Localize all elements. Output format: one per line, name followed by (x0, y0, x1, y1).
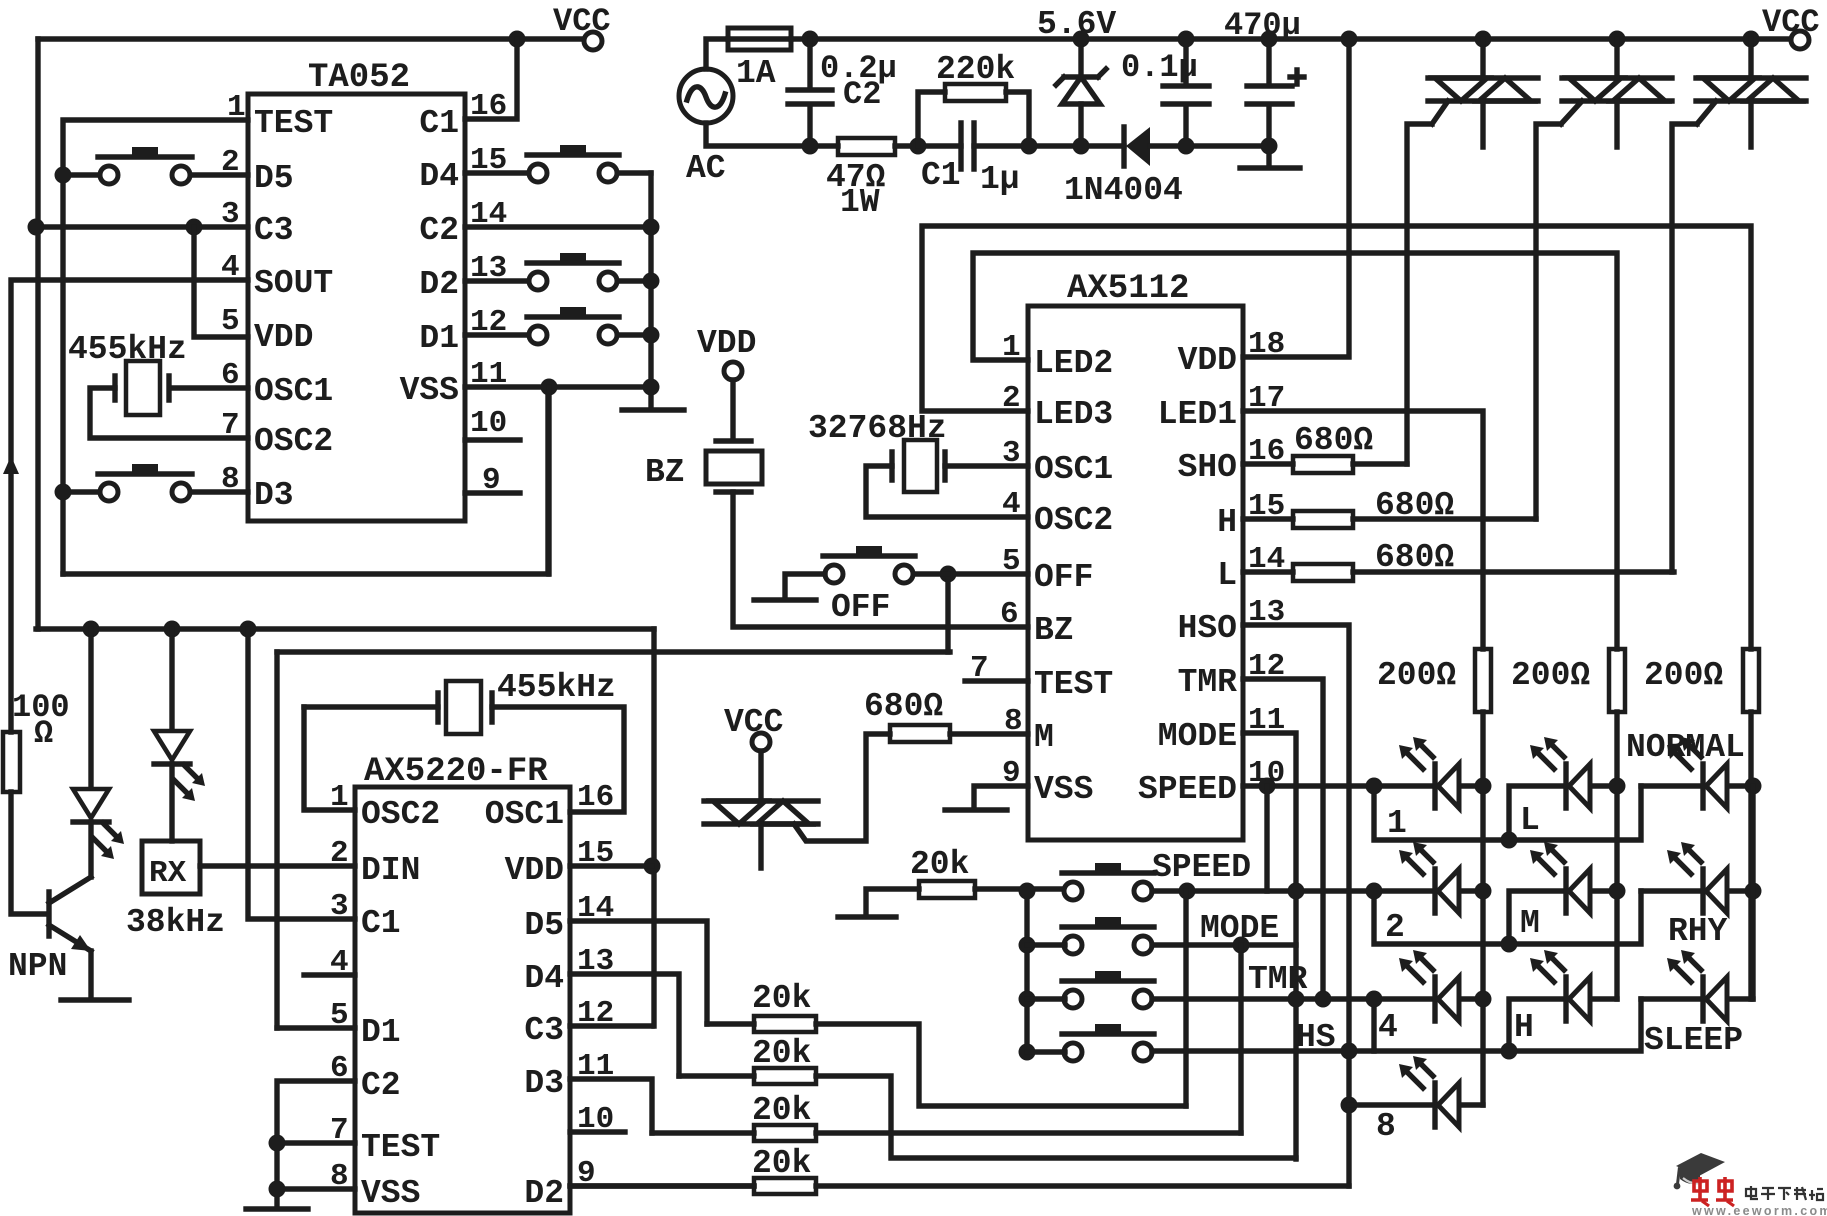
wire pin13 D4 row (570, 974, 679, 1076)
junction key rail row2 (1019, 937, 1036, 954)
svg-text:VDD: VDD (1178, 342, 1237, 379)
wire rail A (LED3 to col3) (922, 226, 1751, 649)
svg-text:13: 13 (577, 944, 614, 979)
svg-text:Ω: Ω (34, 715, 53, 752)
svg-text:8: 8 (330, 1159, 349, 1194)
wire RX to DIN (200, 863, 355, 868)
svg-text:VDD: VDD (505, 852, 564, 889)
svg-text:C3: C3 (524, 1012, 564, 1049)
wire pin11 VSS row (465, 384, 651, 389)
wire 20k r4 path (570, 1183, 1349, 1188)
crystal X1 455kHz (115, 361, 169, 415)
svg-text:680Ω: 680Ω (864, 688, 943, 725)
wire pin1 TEST to bus B (63, 120, 248, 574)
svg-text:VSS: VSS (400, 372, 459, 409)
wire pin9 VSS stub (974, 786, 1028, 808)
wire OSC1 row (AX5112) (945, 463, 1028, 468)
wire pin16 SHO row (1243, 461, 1407, 466)
wire pin6 OSC1 row (171, 385, 248, 390)
svg-text:D1: D1 (419, 320, 459, 357)
svg-text:AC: AC (686, 150, 726, 187)
wire pin14 D5 row (570, 921, 707, 1024)
wire mid triac bottom (758, 824, 763, 868)
junction row3 left (1366, 991, 1383, 1008)
wire diode to caps (1150, 143, 1269, 148)
wire triac gate at x1407 (1407, 101, 1448, 464)
svg-text:1A: 1A (736, 55, 776, 92)
svg-text:H: H (1514, 1009, 1534, 1046)
wire triac1 bottom terminal (1480, 101, 1485, 147)
junction triac3 top (1743, 31, 1760, 48)
svg-text:RX: RX (149, 856, 187, 891)
svg-text:1: 1 (330, 780, 349, 815)
svg-text:TEST: TEST (361, 1129, 440, 1166)
triac Q3 (1696, 78, 1806, 101)
svg-text:C1: C1 (361, 905, 401, 942)
junction C2 bottom (802, 138, 819, 155)
wire LED row1 col1 box (1374, 786, 1641, 840)
wire rail P to C1 (AX5220) (248, 629, 355, 919)
svg-text:455kHz: 455kHz (497, 669, 616, 706)
junction D1 bus (643, 327, 660, 344)
junction 470u top (1261, 31, 1278, 48)
zener D1 symbol (1056, 69, 1106, 104)
wire triac2 anode (1614, 39, 1619, 78)
wire pin12 C3 row (570, 1023, 652, 1028)
LED row1 col3 (1667, 737, 1727, 808)
wire crystal to OSC2 (AX5112) (866, 466, 1028, 517)
svg-text:11: 11 (1248, 703, 1285, 738)
wire pin15 VDD row (570, 863, 652, 868)
wire triac1 anode (1480, 39, 1485, 78)
svg-text:BZ: BZ (1034, 612, 1074, 649)
signal arrow on SOUT line (3, 456, 19, 474)
junction TEST (269, 1135, 286, 1152)
wire pin9 D2 row (570, 1183, 754, 1188)
push-button key3 (1062, 971, 1154, 1008)
resistor R7 20k (754, 1016, 816, 1032)
wire 20k speed left to gnd (866, 889, 919, 913)
wire collector (88, 629, 93, 789)
junction row2 col1 right (1475, 883, 1492, 900)
junction row3 col2 box (1501, 1043, 1518, 1060)
svg-text:16: 16 (470, 89, 507, 124)
polarity + mark (1290, 70, 1304, 84)
crystal X3 455kHz (438, 681, 492, 734)
wire col3 join (1750, 786, 1755, 999)
power terminal VCC (mid) (752, 733, 770, 751)
svg-text:5: 5 (221, 304, 240, 339)
LED row3 col1 (1399, 950, 1459, 1021)
svg-text:L: L (1520, 802, 1540, 839)
junction VDD rail (1341, 31, 1358, 48)
watermark cap icon (1674, 1153, 1725, 1189)
push-button S2 (D3) (98, 464, 192, 501)
resistor 220k (945, 84, 1006, 101)
junction 220k left (910, 138, 927, 155)
junction S2 left (55, 484, 72, 501)
svg-text:RHY: RHY (1668, 913, 1728, 950)
wire AC bottom (706, 123, 838, 146)
junction VSS/bus (643, 379, 660, 396)
wire pin14 C2 row (465, 224, 651, 229)
svg-text:VDD: VDD (254, 319, 313, 356)
wire LED row2 col2 (1509, 891, 1617, 944)
wire pin5 OFF row (948, 571, 1028, 576)
buzzer BZ (706, 380, 762, 492)
svg-text:1: 1 (227, 90, 246, 125)
AC source (679, 69, 733, 123)
resistor R4 680ohm (M) (890, 725, 950, 742)
wire buzzer to pin6 BZ (733, 492, 1028, 627)
wire VCC top-left rail (38, 36, 584, 41)
wire AC to fuse (706, 39, 728, 69)
watermark chinese red (1691, 1177, 1734, 1206)
svg-text:MODE: MODE (1158, 718, 1237, 755)
junction rail P x172 (164, 621, 181, 638)
wire pin11 MODE vertical (1243, 733, 1296, 1159)
svg-text:6: 6 (221, 358, 240, 393)
wire pin11 D3 row (570, 1079, 652, 1133)
junction row3 col1 right (1475, 991, 1492, 1008)
wire VSS stub down (546, 387, 551, 574)
push-button key1 (1062, 863, 1154, 900)
svg-text:14: 14 (470, 197, 507, 232)
svg-text:AX5112: AX5112 (1067, 270, 1189, 308)
svg-text:H: H (1217, 504, 1237, 541)
svg-text:LED2: LED2 (1034, 345, 1113, 382)
wire mid triac anode (758, 751, 763, 801)
svg-text:200Ω: 200Ω (1377, 657, 1456, 694)
svg-text:17: 17 (1248, 381, 1285, 416)
svg-text:20k: 20k (752, 980, 811, 1017)
wire 20k speed to rail (975, 886, 1065, 891)
svg-text:20k: 20k (752, 1145, 811, 1182)
svg-text:VCC: VCC (724, 704, 783, 741)
svg-text:HSO: HSO (1178, 610, 1237, 647)
svg-text:6: 6 (330, 1051, 349, 1086)
svg-text:10: 10 (1248, 756, 1285, 791)
junction C1/VCC (509, 31, 526, 48)
junction row2 left (1366, 883, 1383, 900)
push-button S5 (D1) (527, 307, 619, 344)
svg-text:5: 5 (330, 998, 349, 1033)
svg-text:TEST: TEST (1034, 666, 1113, 703)
wire OFF switch right link (913, 571, 948, 576)
wire pin7 TEST stub (965, 678, 1028, 683)
resistor R1 680ohm (SHO) (1293, 456, 1353, 473)
svg-text:1µ: 1µ (980, 161, 1020, 198)
resistor 200ohm col2 (1609, 649, 1625, 712)
wire LED row2 col3 (1641, 888, 1753, 893)
svg-text:SLEEP: SLEEP (1644, 1022, 1743, 1059)
svg-text:4: 4 (1002, 487, 1021, 522)
wire C1 to diode (974, 143, 1124, 148)
wire pin9 stub (465, 490, 520, 495)
junction zener bottom (1073, 138, 1090, 155)
svg-text:C2: C2 (361, 1067, 401, 1104)
svg-text:D3: D3 (254, 477, 294, 514)
wire right switch bus (648, 173, 653, 407)
svg-text:D2: D2 (419, 266, 459, 303)
wire LED row1 col2 (1509, 786, 1617, 840)
wire riser x1186 (1183, 891, 1188, 1106)
svg-text:2: 2 (1385, 909, 1405, 946)
svg-text:6: 6 (1000, 597, 1019, 632)
capacitor C2 0.2u (788, 39, 832, 146)
svg-text:15: 15 (470, 143, 507, 178)
junction col2 row y786 (1609, 778, 1626, 795)
junction zener top (1073, 31, 1090, 48)
svg-text:C1: C1 (419, 105, 459, 142)
wire pin3 C3 row (36, 224, 248, 229)
svg-text:LED3: LED3 (1034, 396, 1113, 433)
wire rail Q (277, 649, 950, 654)
junction hs row x1349 (1341, 1043, 1358, 1060)
wire pin12 TMR vertical (1243, 679, 1323, 999)
svg-text:VSS: VSS (1034, 771, 1093, 808)
LED row4 col1 (1399, 1056, 1459, 1127)
junction 0.1u top (1178, 31, 1195, 48)
svg-text:BZ: BZ (645, 454, 685, 491)
wire LED row4 (1349, 1102, 1483, 1107)
svg-text:SOUT: SOUT (254, 265, 333, 302)
junction C2 top (802, 31, 819, 48)
wire OFF switch left to ground (785, 574, 825, 595)
wire LED row3 col2 (1509, 999, 1617, 1051)
wire pin18 VDD to rail (1243, 39, 1349, 357)
svg-text:OSC1: OSC1 (254, 373, 333, 410)
junction triac1 top (1475, 31, 1492, 48)
junction VSS/stub (541, 379, 558, 396)
svg-text:11: 11 (470, 357, 507, 392)
svg-text:TA052: TA052 (308, 59, 410, 97)
power terminal VDD (724, 362, 742, 380)
junction rail P x248 (240, 621, 257, 638)
wire LED column 3 (1748, 712, 1753, 999)
svg-text:4: 4 (221, 250, 240, 285)
wire pin15 H row (1243, 516, 1536, 521)
wire crystal loop to OSC2 (90, 388, 248, 438)
svg-text:8: 8 (1004, 704, 1023, 739)
junction row2 col2 box (1501, 936, 1518, 953)
svg-text:12: 12 (1248, 649, 1285, 684)
junction mode vertical on speed row (1288, 883, 1305, 900)
svg-text:5: 5 (1002, 544, 1021, 579)
svg-text:OFF: OFF (831, 589, 890, 626)
resistor 200ohm col3 (1743, 649, 1759, 712)
svg-text:D1: D1 (361, 1014, 401, 1051)
svg-text:7: 7 (970, 651, 989, 686)
wire pin8 D3 row (63, 489, 248, 494)
watermark chinese dark (1746, 1186, 1823, 1200)
junction C3/VDD link (186, 219, 203, 236)
svg-text:D5: D5 (254, 160, 294, 197)
wire HS row (1027, 1051, 1374, 1052)
capacitor C1 1u (961, 123, 974, 169)
svg-text:680Ω: 680Ω (1375, 487, 1454, 524)
svg-text:OSC1: OSC1 (1034, 451, 1113, 488)
wire LED row1 col3 (1641, 783, 1753, 788)
svg-text:C2: C2 (419, 212, 459, 249)
wire pin6 C2 row (277, 1081, 355, 1189)
svg-text:38kHz: 38kHz (126, 904, 225, 941)
junction triac2 top (1609, 31, 1626, 48)
junction S1 left (55, 167, 72, 184)
svg-text:D4: D4 (419, 158, 459, 195)
junction VSS (AX5220) (269, 1181, 286, 1198)
wire pin4 SOUT line (11, 280, 248, 732)
svg-text:2: 2 (221, 145, 240, 180)
svg-text:32768Hz: 32768Hz (808, 410, 947, 447)
svg-text:D4: D4 (524, 960, 564, 997)
svg-text:13: 13 (1248, 595, 1285, 630)
svg-text:12: 12 (470, 305, 507, 340)
svg-text:10: 10 (470, 406, 507, 441)
wire triac2 bottom terminal (1614, 101, 1619, 147)
svg-text:14: 14 (577, 891, 614, 926)
svg-text:4: 4 (330, 945, 349, 980)
svg-text:VCC: VCC (1762, 4, 1820, 41)
wire LED2 top (169, 629, 174, 731)
svg-text:9: 9 (482, 463, 501, 498)
wire rail B (LED2 to col2) (973, 253, 1617, 649)
svg-text:16: 16 (577, 780, 614, 815)
junction row1 left (1366, 778, 1383, 795)
ground (OFF switch) (754, 597, 816, 602)
wire crystal row (455kHz) (304, 707, 624, 812)
wire pin5 D1 row (277, 1025, 355, 1030)
svg-text:8: 8 (1376, 1108, 1396, 1145)
resistor R3 680ohm (L) (1293, 564, 1353, 581)
push-button S3 (D4) (527, 145, 619, 182)
wire LED column 2 (1614, 712, 1619, 999)
svg-text:VCC: VCC (553, 3, 611, 40)
svg-text:18: 18 (1248, 327, 1285, 362)
ground (20k speed) (838, 914, 896, 919)
svg-text:M: M (1034, 719, 1054, 756)
svg-text:9: 9 (1002, 756, 1021, 791)
svg-text:14: 14 (1248, 542, 1285, 577)
svg-text:VSS: VSS (361, 1175, 420, 1212)
wire triac gate at x1672 (1672, 101, 1716, 572)
LED row3 col3 (1667, 950, 1727, 1021)
svg-text:8: 8 (221, 462, 240, 497)
wire pin15 D4 row (465, 170, 651, 175)
svg-text:1: 1 (1002, 330, 1021, 365)
wire key matrix left rail (1024, 891, 1029, 1052)
svg-text:DIN: DIN (361, 852, 420, 889)
junction key rail row4 (1019, 1044, 1036, 1061)
wire pin12 D1 row (465, 332, 651, 337)
resistor R9 20k (754, 1125, 816, 1141)
junction col3 row y891 (1745, 883, 1762, 900)
wire rail Q drop to D1 (274, 652, 279, 1028)
wire 100ohm to base (11, 792, 47, 914)
junction C3/bus A (28, 219, 45, 236)
svg-text:15: 15 (1248, 489, 1285, 524)
wire triac gate at x1536 (1536, 101, 1582, 519)
IC U2 AX5112 body (1028, 306, 1243, 840)
svg-text:OSC1: OSC1 (485, 796, 564, 833)
svg-text:VDD: VDD (697, 325, 756, 362)
triac Q1 (1428, 78, 1538, 101)
svg-text:L: L (1217, 557, 1237, 594)
svg-text:SHO: SHO (1178, 449, 1237, 486)
svg-text:1W: 1W (840, 184, 880, 221)
svg-text:455kHz: 455kHz (68, 331, 187, 368)
wire riser x1241 (1238, 945, 1243, 1133)
wire pin8 VSS row (277, 1189, 355, 1206)
svg-text:7: 7 (221, 408, 240, 443)
svg-text:M: M (1520, 905, 1540, 942)
svg-text:NORMAL: NORMAL (1626, 729, 1745, 766)
svg-text:10: 10 (577, 1102, 614, 1137)
svg-text:1: 1 (1387, 805, 1407, 842)
junction C1 right (1021, 138, 1038, 155)
svg-text:D5: D5 (524, 907, 564, 944)
IC U1 TA052 body (248, 94, 465, 521)
triac Q4 (mid) (704, 801, 818, 824)
diode D2 1N4004 (1124, 127, 1150, 166)
svg-text:3: 3 (1002, 436, 1021, 471)
IR LED2 (154, 731, 205, 801)
junction col2 row y891 (1609, 883, 1626, 900)
svg-text:1N4004: 1N4004 (1064, 172, 1183, 209)
svg-text:TEST: TEST (254, 105, 333, 142)
wire pin16 C1 to VCC rail (465, 39, 517, 119)
zener D1 5.6V (1078, 39, 1083, 146)
transistor Q5 NPN (49, 877, 91, 951)
svg-text:220k: 220k (936, 51, 1015, 88)
wire pin14 L row (1243, 569, 1674, 574)
push-button S6 (OFF) (823, 546, 915, 583)
svg-text:OSC2: OSC2 (254, 423, 333, 460)
wire TA052 block bottom rail (63, 387, 548, 574)
wire OFF vertical (945, 574, 950, 652)
wire top power rail (791, 36, 1791, 41)
svg-text:13: 13 (470, 251, 507, 286)
wire triac3 anode (1748, 39, 1753, 78)
wire 20k r3 path (652, 1130, 1241, 1135)
svg-text:D2: D2 (524, 1175, 564, 1212)
ground (AX5112 VSS) (945, 807, 1007, 812)
svg-text:OSC2: OSC2 (1034, 502, 1113, 539)
wire pin1 OSC2 row (304, 707, 355, 810)
svg-text:C1: C1 (921, 157, 961, 194)
junction row1 col1 right (1475, 778, 1492, 795)
svg-text:11: 11 (577, 1049, 614, 1084)
triac Q2 (1562, 78, 1672, 101)
IC U3 AX5220-FR body (355, 787, 570, 1213)
LED row1 col2 (1530, 737, 1590, 808)
wire SPEED row (1152, 888, 1483, 893)
svg-text:LED1: LED1 (1158, 396, 1237, 433)
wire pin2 D5 row (63, 172, 248, 177)
svg-text:SPEED: SPEED (1152, 849, 1251, 886)
junction 470u bottom (1261, 138, 1278, 155)
fuse F1 1A (728, 28, 791, 50)
LED row2 col2 (1530, 842, 1590, 913)
svg-text:20k: 20k (752, 1035, 811, 1072)
junction mode/20k riser (1233, 937, 1250, 954)
junction tmr corner (1315, 991, 1332, 1008)
junction key rail row3 (1019, 991, 1036, 1008)
svg-text:OFF: OFF (1034, 559, 1093, 596)
junction tmr row x1296 (1288, 991, 1305, 1008)
power terminal VCC (top right) (1791, 31, 1809, 49)
svg-text:4: 4 (1378, 1009, 1398, 1046)
